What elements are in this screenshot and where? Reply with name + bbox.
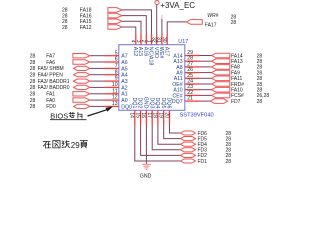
net label FA16 page 28 bbox=[62, 13, 92, 19]
svg-text:28: 28 bbox=[30, 85, 36, 91]
off-page connector FA8 bbox=[212, 65, 230, 70]
wire FA1 to pin 11 bbox=[90, 93, 105, 95]
svg-text:A4: A4 bbox=[121, 73, 127, 79]
off-page connector FA11 bbox=[212, 76, 230, 81]
net label FD3 page 28 bbox=[198, 148, 232, 154]
off-page connector FA1 bbox=[73, 92, 90, 96]
off-page connector FD0 bbox=[74, 104, 90, 108]
svg-text:28: 28 bbox=[30, 60, 36, 66]
pin 21 DQ7 right bbox=[172, 96, 200, 105]
off-page connector FA4/ PPEN bbox=[74, 73, 90, 77]
svg-text:FA0: FA0 bbox=[46, 98, 55, 104]
svg-text:FD0: FD0 bbox=[46, 104, 56, 110]
wire FD6 from pin 20 bbox=[170, 125, 181, 133]
wire FD1 from pin 14 bbox=[135, 125, 181, 161]
svg-text:A12: A12 bbox=[132, 47, 138, 56]
wire FA15 to top pin bbox=[122, 21, 141, 34]
net label FA3/ BADDR1 page 28 bbox=[30, 79, 70, 85]
off-page connector FD6 bbox=[181, 131, 196, 135]
net label FA15 page 28 bbox=[62, 19, 92, 25]
pin 25 A11 right bbox=[174, 73, 200, 82]
svg-text:NC/A18: NC/A18 bbox=[148, 47, 154, 66]
net label FRD# page 28 bbox=[231, 82, 262, 88]
wire FRD# from pin 24 bbox=[200, 83, 212, 85]
net label FD2 page 28 bbox=[198, 153, 232, 159]
svg-text:DQ7: DQ7 bbox=[172, 99, 183, 105]
svg-text:15: 15 bbox=[134, 112, 140, 118]
svg-text:28: 28 bbox=[30, 98, 36, 104]
svg-text:29: 29 bbox=[71, 141, 80, 150]
net label FA8 page 28 bbox=[231, 65, 262, 71]
svg-text:28: 28 bbox=[30, 66, 36, 72]
svg-text:6: 6 bbox=[115, 57, 118, 63]
svg-text:FA4/ PPEN: FA4/ PPEN bbox=[38, 73, 64, 79]
off-page connector FD7 bbox=[211, 99, 228, 104]
off-page connector FD3 bbox=[181, 148, 196, 152]
svg-text:28: 28 bbox=[30, 104, 36, 110]
svg-text:FA3/ BADDR1: FA3/ BADDR1 bbox=[38, 79, 70, 85]
svg-text:FA17: FA17 bbox=[205, 22, 217, 28]
part value SST39VF040 bbox=[180, 113, 214, 119]
svg-text:SST39VF040: SST39VF040 bbox=[180, 113, 214, 119]
svg-text:DQ1: DQ1 bbox=[131, 97, 137, 108]
net label FA10 page 28 bbox=[231, 88, 262, 94]
net label FA18 page 28 bbox=[62, 8, 92, 14]
svg-text:FA6: FA6 bbox=[46, 60, 55, 66]
power symbol +3VA_EC bbox=[155, 1, 195, 10]
wire FD4 from pin 18 bbox=[158, 125, 181, 144]
svg-text:28: 28 bbox=[226, 159, 232, 165]
off-page connector FA16 bbox=[108, 13, 122, 18]
pin 7 A5 left bbox=[105, 63, 128, 72]
svg-text:FA7: FA7 bbox=[46, 54, 55, 60]
pin 15 DQ2 bottom bbox=[134, 97, 142, 125]
svg-text:2: 2 bbox=[140, 40, 146, 43]
svg-text:A6: A6 bbox=[121, 60, 127, 66]
svg-text:A0: A0 bbox=[121, 98, 127, 104]
svg-text:13: 13 bbox=[112, 101, 118, 107]
off-page connector FA5/ SHBM bbox=[74, 66, 90, 70]
net label FA5/ SHBM page 28 bbox=[30, 66, 64, 72]
pin 1 NC/A18 top bbox=[145, 34, 153, 65]
pin 11 A1 left bbox=[105, 88, 128, 97]
svg-text:A1: A1 bbox=[121, 92, 127, 98]
off-page connector FD5 bbox=[181, 137, 196, 141]
net label FA13 page 28 bbox=[231, 59, 262, 65]
svg-text:+3VA_EC: +3VA_EC bbox=[160, 1, 195, 10]
net label FA2/ BADDR0 page 28 bbox=[30, 85, 70, 91]
net label FA17 page 28 bbox=[205, 20, 237, 28]
annotation underline bbox=[50, 119, 87, 121]
wire A17 to FA17 connector bbox=[167, 22, 186, 34]
svg-text:20: 20 bbox=[163, 112, 169, 118]
off-page connector FA13 bbox=[212, 59, 230, 64]
off-page connector FA3/ BADDR1 bbox=[74, 79, 90, 83]
svg-text:A7: A7 bbox=[121, 54, 127, 60]
svg-text:28: 28 bbox=[62, 25, 68, 31]
svg-text:28: 28 bbox=[30, 54, 36, 60]
pin 29 A14 right bbox=[173, 50, 199, 59]
wire FA2/ BADDR0 to pin 10 bbox=[90, 86, 105, 88]
pin 17 DQ3 bottom bbox=[146, 97, 154, 125]
svg-text:FD7: FD7 bbox=[231, 99, 241, 105]
svg-text:VDD: VDD bbox=[153, 47, 159, 58]
svg-text:DQ5: DQ5 bbox=[160, 97, 166, 108]
net label WR# page 28 bbox=[207, 13, 236, 21]
off-page connector FRD# bbox=[212, 82, 230, 87]
annotation sheet page note bbox=[43, 141, 87, 151]
wire GND down bbox=[145, 125, 147, 164]
svg-text:A5: A5 bbox=[121, 66, 127, 72]
pin 32 VDD top bbox=[151, 34, 159, 58]
net label FCS# page 26,28 bbox=[231, 93, 269, 99]
wire FD3 from pin 17 bbox=[152, 125, 180, 150]
svg-text:WR#: WR# bbox=[207, 13, 218, 19]
net label FA1 page 28 bbox=[30, 92, 56, 98]
wire FA0 to pin 12 bbox=[90, 99, 105, 101]
pin 20 DQ6 bottom bbox=[163, 97, 171, 125]
svg-text:WE#: WE# bbox=[158, 47, 164, 59]
wire FCS# from pin 22 bbox=[200, 94, 212, 96]
svg-text:8: 8 bbox=[115, 69, 118, 75]
svg-text:19: 19 bbox=[158, 112, 164, 118]
wire WE# up bbox=[161, 15, 163, 34]
svg-text:DQ2: DQ2 bbox=[137, 97, 143, 108]
svg-text:28: 28 bbox=[257, 99, 263, 105]
refdes U17 bbox=[178, 39, 188, 45]
svg-text:BIOS: BIOS bbox=[50, 112, 68, 121]
svg-text:1: 1 bbox=[145, 40, 151, 43]
wire FA9 from pin 26 bbox=[200, 72, 212, 74]
svg-text:14: 14 bbox=[129, 112, 135, 118]
svg-text:28: 28 bbox=[30, 79, 36, 85]
svg-text:FA1: FA1 bbox=[46, 92, 55, 98]
svg-text:A3: A3 bbox=[121, 79, 127, 85]
off-page connector FA15 bbox=[108, 19, 122, 24]
annotation BIOS chip text bbox=[50, 112, 68, 121]
net label FA9 page 28 bbox=[231, 70, 262, 76]
svg-text:A17: A17 bbox=[163, 47, 169, 56]
svg-text:A15: A15 bbox=[137, 47, 143, 56]
off-page connector FD1 bbox=[181, 159, 196, 163]
wire FA10 from pin 23 bbox=[200, 89, 212, 91]
svg-text:A16: A16 bbox=[142, 47, 148, 56]
off-page connector WR#/FA17 bbox=[186, 20, 202, 25]
wire FA6 to pin 6 bbox=[90, 61, 105, 63]
pin 24 OE# right bbox=[172, 79, 199, 88]
pin 12 A0 left bbox=[105, 95, 128, 104]
off-page connector FA0 bbox=[73, 98, 90, 102]
wire FA5/ SHBM to pin 7 bbox=[90, 67, 105, 69]
off-page connector FD2 bbox=[181, 153, 196, 157]
pin 2 A16 top bbox=[140, 34, 148, 56]
pin 16 GND bottom bbox=[140, 97, 148, 125]
svg-text:31: 31 bbox=[156, 37, 162, 43]
svg-text:7: 7 bbox=[115, 63, 118, 69]
svg-text:3: 3 bbox=[135, 40, 141, 43]
wire FA7 to pin 5 bbox=[90, 55, 105, 57]
net label FD0 page 28 bbox=[30, 104, 56, 110]
net label FD7 page 28 bbox=[231, 99, 262, 105]
wire FA14 from pin 29 bbox=[200, 55, 212, 57]
pin 31 WE# top bbox=[156, 34, 164, 58]
pin 8 A4 left bbox=[105, 69, 128, 78]
svg-text:11: 11 bbox=[112, 88, 117, 94]
pin 5 A7 left bbox=[105, 50, 128, 59]
svg-text:DQ0: DQ0 bbox=[121, 104, 132, 110]
pin 13 DQ0 left bbox=[105, 101, 133, 110]
pin 28 A13 right bbox=[173, 56, 199, 65]
svg-text:5: 5 bbox=[115, 50, 118, 56]
off-page connector FA2/ BADDR0 bbox=[74, 85, 90, 89]
off-page connector FD4 bbox=[181, 142, 196, 146]
svg-text:4: 4 bbox=[130, 40, 136, 43]
wire FA4/ PPEN to pin 8 bbox=[90, 74, 105, 76]
svg-text:18: 18 bbox=[152, 112, 158, 118]
net label FA7 page 28 bbox=[30, 54, 56, 60]
off-page connector FA14 bbox=[212, 53, 230, 58]
pin 9 A3 left bbox=[105, 76, 128, 85]
wire VDD to +3VA_EC bbox=[156, 5, 158, 34]
svg-text:DQ3: DQ3 bbox=[148, 97, 154, 108]
svg-text:17: 17 bbox=[146, 112, 152, 118]
svg-text:DQ6: DQ6 bbox=[166, 97, 172, 108]
pin 27 A8 right bbox=[176, 61, 199, 70]
net label FA6 page 28 bbox=[30, 60, 56, 66]
svg-text:28: 28 bbox=[30, 92, 36, 98]
net label FD5 page 28 bbox=[198, 136, 232, 142]
svg-text:28: 28 bbox=[231, 20, 237, 26]
pin 6 A6 left bbox=[105, 57, 128, 66]
net label FA14 page 28 bbox=[231, 53, 262, 59]
net label FA4/ PPEN page 28 bbox=[30, 73, 64, 79]
net label FA12 page 28 bbox=[62, 25, 92, 31]
wire FD5 from pin 19 bbox=[164, 125, 181, 139]
ground label GND bbox=[140, 173, 152, 179]
off-page connector FA18 bbox=[108, 8, 122, 13]
ground symbol bbox=[142, 164, 151, 169]
svg-text:28: 28 bbox=[30, 73, 36, 79]
svg-text:16: 16 bbox=[140, 112, 146, 118]
svg-text:FA2/ BADDR0: FA2/ BADDR0 bbox=[38, 85, 70, 91]
off-page connector FA7 bbox=[73, 54, 90, 58]
pin 18 DQ4 bottom bbox=[152, 97, 160, 125]
svg-text:FA5/ SHBM: FA5/ SHBM bbox=[38, 66, 64, 72]
off-page connector FA9 bbox=[212, 70, 230, 75]
pin 4 A12 top bbox=[130, 34, 138, 56]
wire FD2 from pin 15 bbox=[141, 125, 181, 155]
annotation chip CJK glyphs bbox=[69, 112, 82, 118]
annotation arrow to chip bbox=[88, 106, 114, 116]
svg-text:10: 10 bbox=[112, 82, 118, 88]
pin 23 A10 right bbox=[173, 84, 199, 93]
net label FA11 page 28 bbox=[231, 76, 262, 82]
svg-text:GND: GND bbox=[143, 97, 149, 109]
svg-text:FD1: FD1 bbox=[198, 159, 208, 165]
wire FA16 to top pin bbox=[122, 16, 146, 34]
svg-text:GND: GND bbox=[140, 173, 152, 179]
off-page connector FCS# bbox=[212, 93, 230, 98]
off-page connector FA10 bbox=[212, 87, 230, 92]
svg-text:32: 32 bbox=[151, 37, 157, 43]
svg-text:9: 9 bbox=[115, 76, 118, 82]
pin 19 DQ5 bottom bbox=[158, 97, 166, 125]
pin 22 CE# right bbox=[173, 90, 200, 99]
net label FD4 page 28 bbox=[198, 142, 232, 148]
svg-text:12: 12 bbox=[112, 95, 118, 101]
pin 14 DQ1 bottom bbox=[129, 97, 137, 125]
wire FA11 from pin 25 bbox=[200, 77, 212, 79]
pin 10 A2 left bbox=[105, 82, 128, 91]
svg-text:DQ4: DQ4 bbox=[154, 97, 160, 108]
pin 30 A17 top bbox=[161, 34, 169, 56]
svg-text:U17: U17 bbox=[178, 39, 188, 45]
wire FA12 to top pin bbox=[122, 27, 136, 34]
off-page connector FA12 bbox=[108, 25, 122, 30]
net label FD1 page 28 bbox=[198, 159, 232, 165]
svg-text:21: 21 bbox=[187, 96, 193, 102]
wire FA8 from pin 27 bbox=[200, 66, 212, 68]
svg-text:A2: A2 bbox=[121, 85, 127, 91]
wire FA3/ BADDR1 to pin 9 bbox=[90, 80, 105, 82]
net label FA0 page 28 bbox=[30, 98, 56, 104]
off-page connector FA6 bbox=[73, 60, 90, 64]
net label FD6 page 28 bbox=[198, 131, 232, 137]
wire FD0 to pin 13 bbox=[90, 105, 105, 107]
wire FA13 from pin 28 bbox=[200, 60, 212, 62]
wire FA18 to top pin bbox=[122, 10, 151, 34]
svg-text:FA12: FA12 bbox=[80, 25, 92, 31]
pin 26 A9 right bbox=[176, 67, 199, 76]
op-amp U17 flash chip body SST39VF040 bbox=[119, 45, 185, 111]
pin 3 A15 top bbox=[135, 34, 143, 56]
svg-text:30: 30 bbox=[161, 37, 167, 43]
wire FD7 from pin 21 bbox=[200, 100, 212, 102]
